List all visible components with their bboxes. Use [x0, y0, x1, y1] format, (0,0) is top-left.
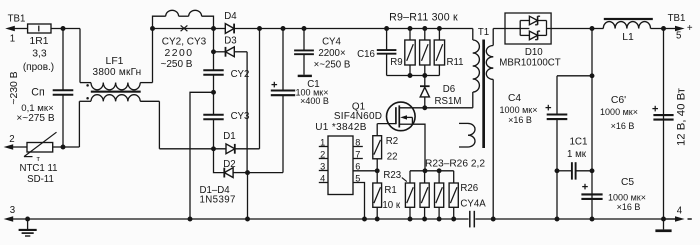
svg-text:LF1: LF1: [106, 56, 124, 67]
diode D3: [214, 35, 248, 56]
svg-text:CY2, CY3: CY2, CY3: [162, 37, 207, 48]
inductor L1: [592, 18, 664, 43]
resistor R1: [373, 171, 382, 219]
fuse link FU with bypass humps: [150, 10, 216, 31]
label Q1 SIF4N60D: [334, 101, 382, 122]
svg-text:2200×: 2200×: [318, 48, 345, 59]
wire source: [412, 124, 425, 171]
resistor R11: [434, 26, 463, 75]
choke LF1 winding 2: [79, 95, 159, 149]
label R23 leader: [383, 170, 406, 181]
svg-text:×16 В: ×16 В: [508, 115, 532, 125]
svg-text:8: 8: [355, 137, 360, 147]
capacitor CY3: [203, 92, 249, 149]
svg-text:×16 В: ×16 В: [611, 121, 635, 131]
svg-text:~230 В: ~230 В: [9, 71, 20, 104]
wire C4 top: [557, 75, 592, 77]
diode D2: [214, 149, 248, 178]
label LF1: [93, 56, 142, 78]
svg-text:5: 5: [355, 173, 360, 183]
svg-text:5: 5: [676, 30, 681, 41]
node AC2: [211, 146, 216, 151]
svg-text:R2: R2: [386, 136, 398, 147]
rail junction dots: [188, 217, 595, 222]
label C4 value: [500, 93, 538, 125]
label R23-R26 value: [425, 159, 485, 170]
svg-text:NTC1 11: NTC1 11: [19, 163, 57, 174]
svg-text:10 к: 10 к: [382, 200, 400, 211]
wire minus bus to C1: [248, 95, 284, 172]
wire top bus to T1: [260, 28, 473, 30]
choke LF1 winding 1: [80, 29, 153, 90]
svg-text:SIF4N60D: SIF4N60D: [334, 111, 382, 122]
node minus bus: [245, 170, 250, 219]
label T1: [478, 27, 489, 38]
capacitor CY4: [294, 26, 314, 75]
wire snubber bottom: [387, 73, 440, 78]
capacitor Cn: [53, 29, 74, 148]
choke LF1 core: [91, 91, 141, 93]
svg-text:+: +: [687, 23, 693, 34]
node CY midpoint: [190, 90, 216, 219]
label D10 MBR10100CT: [499, 47, 560, 68]
wire NTC to LF1: [53, 101, 80, 149]
svg-text:6: 6: [355, 162, 360, 172]
label NTC1 SD-11: [19, 163, 57, 185]
wire AC1 column: [211, 29, 216, 71]
label 12V 40W (rotated): [676, 87, 688, 146]
wire D3 anode down: [246, 52, 248, 173]
label R9-R11 value: [389, 11, 458, 23]
svg-text:4: 4: [320, 173, 325, 183]
dual diode D10: [493, 13, 592, 44]
capacitor 1C1: [557, 162, 592, 179]
diode D4: [214, 11, 260, 34]
label CY4A: [460, 198, 486, 209]
transformer T1 core: [482, 40, 485, 149]
svg-text:1000 мк×: 1000 мк×: [600, 107, 638, 117]
svg-text:1000 мк×: 1000 мк×: [608, 192, 646, 202]
label 1R1 value: [23, 36, 54, 73]
label C6 value: [600, 95, 638, 131]
svg-text:2: 2: [320, 149, 325, 159]
svg-text:RS1M: RS1M: [435, 96, 462, 107]
wire drain: [399, 105, 473, 110]
terminal arrow pin 3: [4, 205, 16, 222]
label D6 RS1M: [435, 84, 462, 107]
svg-text:CY2: CY2: [231, 69, 250, 80]
svg-text:R23: R23: [383, 170, 401, 181]
U1 pin 6 wire: [353, 162, 380, 174]
svg-text:×~275 В: ×~275 В: [16, 113, 54, 124]
svg-text:SD-11: SD-11: [27, 174, 54, 185]
svg-text:CY4: CY4: [322, 37, 341, 48]
label CY4 value: [314, 37, 351, 71]
wire D1 cathode to plus bus: [257, 26, 262, 149]
svg-text:R26: R26: [460, 183, 478, 194]
resistor R23: [405, 171, 414, 219]
svg-text:т: т: [37, 154, 41, 163]
svg-text:1 мк: 1 мк: [567, 149, 587, 160]
ground chassis at CY4: [298, 75, 312, 77]
svg-text:3800 мкГн: 3800 мкГн: [93, 67, 142, 78]
resistor R2: [373, 124, 382, 171]
svg-text:R9–R11 300 к: R9–R11 300 к: [389, 11, 458, 23]
svg-text:1R1: 1R1: [30, 36, 49, 47]
svg-text:1000 мк×: 1000 мк×: [500, 105, 538, 115]
resistor R25: [435, 171, 444, 219]
transformer T1 primary: [473, 29, 480, 108]
ground symbol left: [19, 217, 37, 236]
transformer T1 aux winding: [459, 123, 475, 147]
resistor R9: [390, 26, 415, 75]
terminal label TB1 (left): [8, 14, 26, 25]
transistor Q1 MOSFET: [377, 102, 415, 131]
svg-text:2: 2: [9, 134, 14, 145]
svg-text:R1: R1: [384, 185, 396, 196]
svg-text:U1 *3842B: U1 *3842B: [315, 122, 367, 133]
svg-text:~250 В: ~250 В: [161, 59, 193, 70]
svg-text:D10: D10: [525, 47, 543, 58]
svg-text:3: 3: [320, 161, 325, 171]
wire ground rail left: [13, 218, 469, 220]
label U1 *3842B: [315, 122, 367, 133]
svg-text:1: 1: [10, 34, 15, 45]
svg-text:×16 В: ×16 В: [617, 202, 641, 212]
svg-text:D3: D3: [224, 35, 236, 46]
capacitor C5: [581, 184, 602, 199]
wire R1 to node A: [51, 28, 80, 30]
label R2 22: [386, 136, 398, 163]
label D1-D4 1N5397: [200, 185, 236, 206]
svg-text:3,3: 3,3: [32, 48, 47, 59]
svg-text:C5: C5: [621, 177, 634, 188]
transformer T1 secondary: [486, 29, 493, 220]
label 1C1 value: [567, 136, 588, 160]
label R1 10k: [382, 185, 400, 211]
diode D1: [159, 131, 259, 154]
terminal arrow pin 4: [664, 206, 692, 222]
op-amp U1 3842B box: [328, 136, 353, 195]
terminal arrow pin 2: [4, 134, 27, 150]
svg-text:×400 В: ×400 В: [300, 96, 329, 106]
wire ground rail right: [475, 218, 675, 220]
svg-text:ТВ1: ТВ1: [8, 14, 26, 25]
svg-text:1C1: 1C1: [569, 136, 588, 147]
svg-text:CY4A: CY4A: [460, 198, 486, 209]
svg-text:C6': C6': [611, 95, 626, 106]
resistor 1R1 fusible: [28, 24, 51, 33]
svg-text:Т1: Т1: [478, 27, 489, 38]
svg-text:Сп: Сп: [31, 87, 44, 99]
wire sense node: [410, 168, 454, 173]
svg-text:ТВ1: ТВ1: [668, 13, 686, 24]
svg-text:D4: D4: [224, 11, 237, 22]
label Cn value: [16, 87, 54, 124]
label C5 value: [608, 177, 646, 212]
label R26: [460, 183, 478, 194]
svg-text:2200: 2200: [164, 48, 193, 59]
svg-text:12 В, 40 Вт: 12 В, 40 Вт: [676, 87, 688, 146]
svg-text:3: 3: [10, 205, 15, 216]
resistor R26: [449, 171, 458, 219]
svg-text:MBR10100CT: MBR10100CT: [499, 58, 560, 69]
terminal arrow pin 5: [664, 13, 693, 41]
capacitor C1: [271, 26, 295, 95]
svg-text:7: 7: [355, 149, 360, 159]
label ~230 V (rotated): [9, 71, 20, 104]
U1 pin 8: [353, 137, 363, 147]
U1 pins 1-4: [319, 137, 328, 183]
capacitor C4: [546, 76, 568, 219]
label CY2 CY3 values: [161, 37, 207, 71]
svg-text:D1: D1: [223, 131, 235, 142]
svg-text:CY3: CY3: [231, 111, 250, 122]
svg-text:D2: D2: [223, 159, 235, 170]
resistor R24: [420, 171, 429, 219]
svg-text:R11: R11: [446, 57, 463, 68]
svg-text:22: 22: [387, 152, 398, 163]
svg-text:(пров.): (пров.): [23, 62, 54, 73]
terminal arrow pin 1: [5, 26, 27, 45]
label C1 value: [296, 79, 329, 106]
U1 pin 5 wire: [353, 173, 365, 219]
ground chassis right: [655, 217, 671, 233]
svg-text:D6: D6: [443, 84, 455, 95]
svg-text:1: 1: [320, 137, 325, 147]
capacitor CY2: [203, 69, 249, 93]
resistor R10: [420, 26, 430, 75]
svg-text:×~250 В: ×~250 В: [314, 60, 351, 71]
capacitor C6': [652, 26, 673, 219]
svg-text:C16: C16: [357, 49, 375, 60]
svg-text:R9: R9: [390, 57, 402, 68]
capacitor CY4A: [470, 211, 475, 228]
thermistor NTC1: [24, 132, 57, 163]
node A junction: [61, 26, 66, 31]
node plus12 column: [590, 26, 595, 219]
svg-text:L1: L1: [622, 32, 634, 43]
svg-text:R23–R26 2,2: R23–R26 2,2: [425, 159, 485, 170]
U1 pin 7: [353, 149, 363, 159]
diode D6: [420, 76, 430, 108]
svg-text:C4: C4: [508, 93, 521, 104]
svg-text:4: 4: [677, 206, 683, 217]
svg-text:1N5397: 1N5397: [200, 195, 236, 206]
capacitor C16: [357, 26, 396, 75]
